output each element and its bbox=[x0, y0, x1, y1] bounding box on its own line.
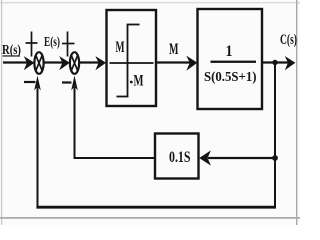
plant block outline bbox=[198, 9, 263, 109]
wire: input into summer 1 bbox=[3, 56, 34, 70]
relay nonlinearity block outline bbox=[107, 10, 157, 106]
plus sign at summer 2 bbox=[62, 32, 75, 57]
svg-text:E(s): E(s) bbox=[44, 34, 60, 49]
plant fraction bar bbox=[211, 61, 257, 63]
wire: 0.1S output left then up into summer 2 bbox=[71, 76, 155, 160]
svg-text:M: M bbox=[134, 73, 144, 90]
minus sign at summer 1 bbox=[24, 81, 35, 83]
wire: plant output to C(s) bbox=[262, 56, 295, 70]
relay characteristic: +M level segment bbox=[127, 24, 140, 26]
svg-text:0.1S: 0.1S bbox=[169, 149, 191, 166]
wire: outer loop bottom and up into summer 1 bbox=[34, 76, 276, 209]
faint scan edges (decorative) bbox=[0, 2, 300, 3]
label R(s) bbox=[2, 43, 21, 58]
plus sign at summer 1 bbox=[26, 32, 38, 57]
relay characteristic: -M level segment bbox=[117, 96, 129, 98]
wire: right node into 0.1S block bbox=[199, 150, 275, 165]
svg-text:M: M bbox=[169, 41, 179, 58]
block 0.1S outline bbox=[155, 134, 199, 179]
svg-text:S(0.5S+1): S(0.5S+1) bbox=[204, 70, 257, 85]
wire: relay to plant, label M bbox=[156, 41, 197, 71]
svg-text:1: 1 bbox=[226, 43, 233, 60]
label -M inside relay bbox=[130, 81, 133, 84]
relay characteristic: vertical step bbox=[127, 25, 129, 97]
wire: summer 1 to summer 2 bbox=[44, 56, 70, 70]
wire: summer 2 to relay block bbox=[79, 56, 106, 70]
takeoff node on output bbox=[272, 60, 277, 65]
summing junction 1 bbox=[34, 52, 43, 74]
relay characteristic: horizontal axis bbox=[110, 62, 154, 64]
svg-text:C(s): C(s) bbox=[280, 32, 297, 48]
svg-text:M: M bbox=[116, 39, 125, 56]
minus sign at summer 2 bbox=[62, 81, 72, 83]
node: junction to 0.1S branch bbox=[272, 155, 278, 161]
wire: vertical feedback drop at right bbox=[274, 63, 276, 208]
summing junction 2 bbox=[70, 52, 79, 74]
